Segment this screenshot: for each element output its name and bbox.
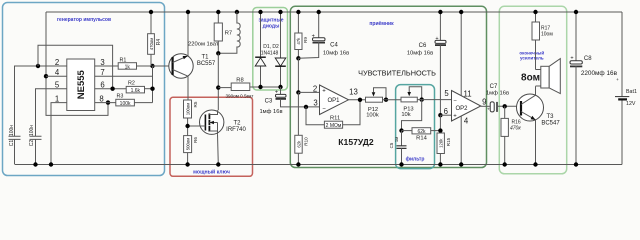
- svg-text:C4: C4: [330, 43, 338, 49]
- svg-text:R16: R16: [512, 119, 521, 125]
- wire pin6: [440, 114, 451, 116]
- svg-text:R4: R4: [156, 39, 162, 46]
- wire R8 to diodes: [250, 86, 281, 88]
- inductor coil L: [218, 10, 240, 54]
- svg-text:+: +: [322, 88, 326, 94]
- capacitor C6 10мф 16в: [407, 10, 446, 115]
- node output/feedback: [358, 98, 362, 102]
- wire pin1 to ground: [51, 103, 67, 165]
- svg-text:R6: R6: [193, 137, 198, 143]
- svg-text:−: −: [453, 98, 457, 104]
- svg-text:10мф 16в: 10мф 16в: [407, 51, 433, 57]
- svg-text:6: 6: [444, 107, 448, 116]
- wire pin4: [46, 75, 67, 77]
- svg-text:R5: R5: [193, 101, 198, 107]
- power switch box (мощный ключ): [170, 97, 253, 176]
- svg-text:2: 2: [313, 85, 317, 94]
- capacitor C3 1мф 16в: [259, 87, 319, 115]
- svg-text:R11: R11: [330, 116, 340, 122]
- node base column top: [150, 64, 154, 68]
- wire OP1 output: [349, 99, 366, 101]
- svg-text:1N4148: 1N4148: [261, 51, 279, 57]
- node pin2 tie: [36, 64, 40, 68]
- wire R3 to node: [134, 102, 152, 104]
- node drain top: [216, 51, 220, 55]
- capacitor C5: [389, 131, 406, 167]
- node R14 right: [438, 128, 442, 132]
- wire pin2 to C1: [15, 66, 67, 136]
- svg-text:−: −: [322, 106, 326, 112]
- wire R2 to node: [145, 88, 153, 90]
- generator box (генератор импульсов): [3, 3, 165, 176]
- wire pin8 to R3: [95, 102, 116, 104]
- svg-text:10k: 10k: [401, 112, 410, 118]
- svg-text:защитные: защитные: [258, 18, 283, 24]
- wire +12V top rail: [46, 11, 622, 13]
- svg-text:8ом: 8ом: [521, 73, 540, 84]
- diode D2: [275, 10, 286, 89]
- svg-text:11: 11: [463, 89, 471, 98]
- wire base node column: [152, 66, 154, 103]
- svg-text:3: 3: [313, 98, 317, 107]
- node R2 right: [150, 87, 154, 91]
- potentiometer P13 10k: [401, 87, 452, 118]
- svg-text:усилитель: усилитель: [520, 56, 544, 61]
- wire pin2 OP1: [298, 91, 319, 93]
- wire pin11 supply: [460, 12, 462, 96]
- svg-text:390ом 0.5ват: 390ом 0.5ват: [226, 94, 255, 99]
- svg-text:1мф 16в: 1мф 16в: [259, 109, 282, 115]
- potentiometer P12 100k: [366, 88, 402, 119]
- svg-text:+: +: [487, 106, 490, 111]
- svg-text:D1, D2: D1, D2: [263, 44, 279, 50]
- wire pin6 to R2: [95, 88, 127, 90]
- op-amp OP2: [444, 89, 487, 125]
- svg-text:фильтр: фильтр: [406, 156, 425, 163]
- resistor R17 10ом: [532, 10, 553, 70]
- transistor T1 BC557: [169, 10, 216, 100]
- svg-text:62k: 62k: [296, 140, 301, 148]
- svg-text:R2: R2: [128, 81, 135, 87]
- svg-text:BC557: BC557: [197, 61, 216, 67]
- svg-text:C1: C1: [9, 140, 15, 147]
- resistor R8 390ом 0.5ват: [226, 77, 255, 98]
- node pin8: [106, 100, 110, 104]
- receiver box (приёмник): [290, 6, 486, 167]
- svg-text:10мф 16в: 10мф 16в: [323, 51, 349, 57]
- svg-text:R9: R9: [303, 37, 308, 43]
- svg-text:100k: 100k: [120, 101, 131, 107]
- op-amp OP1: [313, 85, 358, 115]
- svg-text:R1: R1: [120, 58, 127, 64]
- svg-text:12V: 12V: [626, 101, 636, 107]
- resistor R14 62k: [402, 128, 441, 142]
- svg-text:62k: 62k: [417, 129, 426, 135]
- svg-text:генератор импульсов: генератор импульсов: [57, 17, 111, 23]
- resistor R5: [184, 100, 198, 136]
- svg-text:100н: 100н: [29, 125, 35, 136]
- resistor R2 1.6k: [126, 81, 144, 94]
- svg-text:NE555: NE555: [76, 69, 87, 99]
- node gate: [185, 124, 189, 128]
- wire OP2 output: [481, 105, 490, 107]
- node pin2 OP1: [296, 90, 300, 94]
- capacitor C2 100н: [29, 125, 42, 167]
- svg-text:R3: R3: [117, 94, 124, 100]
- svg-text:500ом: 500ом: [185, 138, 190, 151]
- svg-text:13: 13: [349, 87, 358, 96]
- svg-text:10ом: 10ом: [541, 32, 553, 38]
- svg-text:OP1: OP1: [327, 98, 340, 104]
- resistor R4 470ом: [148, 10, 162, 66]
- svg-text:приёмник: приёмник: [369, 21, 394, 27]
- svg-text:R8: R8: [236, 77, 243, 83]
- IC NE555 U1: [67, 59, 95, 111]
- svg-text:C3: C3: [265, 98, 273, 104]
- resistor R1 1k: [118, 58, 136, 71]
- svg-text:мощный ключ: мощный ключ: [193, 169, 230, 176]
- node pin1 gnd: [49, 162, 53, 166]
- svg-text:диоды: диоды: [263, 24, 280, 30]
- svg-text:+: +: [453, 113, 457, 119]
- svg-text:ЧУВСТВИТЕЛЬНОСТЬ: ЧУВСТВИТЕЛЬНОСТЬ: [358, 68, 436, 77]
- wire R10 column: [297, 92, 299, 164]
- svg-text:120k: 120k: [439, 138, 444, 148]
- wire R11 feedback loop: [306, 100, 360, 125]
- node R9/C4: [296, 56, 300, 60]
- wire base node to T1 base: [153, 65, 173, 67]
- svg-text:T1: T1: [201, 54, 209, 60]
- svg-text:R14: R14: [416, 136, 427, 142]
- node C7/R16/base: [503, 104, 507, 108]
- resistor R10 62k: [295, 135, 309, 166]
- transistor T2 IRF740 mosfet: [188, 110, 247, 167]
- wire +V left drop to pin4 and under-chip link to pin8: [46, 12, 108, 115]
- svg-text:R15: R15: [446, 137, 451, 146]
- output amplifier box (оконечный усилитель): [499, 6, 566, 174]
- wire pin2-pin6 over-the-top tie: [38, 45, 113, 88]
- svg-text:1мф 16в: 1мф 16в: [486, 90, 509, 96]
- wire drain column: [217, 53, 219, 110]
- node C5/R14 left: [399, 128, 403, 132]
- node drain/R8: [216, 85, 220, 89]
- svg-text:47k: 47k: [296, 37, 301, 45]
- wire pin3 to R1: [95, 65, 119, 67]
- node R2 left: [110, 87, 114, 91]
- svg-text:Bat1: Bat1: [626, 89, 637, 95]
- battery Bat1 12V: [615, 12, 637, 165]
- svg-text:C2: C2: [29, 140, 35, 147]
- svg-text:100k: 100k: [366, 112, 379, 118]
- svg-text:C6: C6: [419, 43, 427, 49]
- resistor R7: [214, 10, 232, 54]
- svg-text:470ом: 470ом: [149, 38, 154, 51]
- svg-text:2200мф 16в: 2200мф 16в: [581, 70, 618, 77]
- resistor R16 470к: [501, 106, 521, 166]
- wire ground bottom rail: [15, 164, 622, 166]
- capacitor C7 1мф 16в: [486, 84, 521, 112]
- svg-text:T2: T2: [233, 120, 241, 126]
- svg-text:220ом 1ват: 220ом 1ват: [188, 42, 219, 48]
- resistor R11 2 МОм: [324, 116, 342, 129]
- svg-text:IRF740: IRF740: [226, 127, 246, 133]
- resistor R9: [295, 10, 308, 59]
- capacitor C4 10мф 16в: [298, 10, 349, 59]
- svg-text:100ом: 100ом: [185, 103, 190, 116]
- wire R9 node to pin2 node: [297, 58, 299, 92]
- svg-text:C7: C7: [490, 84, 498, 90]
- wire pin7 to node: [95, 75, 153, 77]
- svg-text:9: 9: [482, 98, 486, 107]
- resistor R6: [184, 136, 198, 167]
- resistor R3 100k: [116, 94, 135, 107]
- protective diodes box (защитные диоды): [253, 8, 288, 91]
- svg-text:BC547: BC547: [541, 121, 560, 127]
- speaker 8ом: [521, 59, 560, 94]
- filter box (фильтр): [396, 85, 435, 169]
- resistor R15 120k: [437, 133, 451, 167]
- node pin4: [44, 74, 48, 78]
- svg-text:T3: T3: [546, 114, 554, 120]
- svg-text:R10: R10: [303, 137, 308, 146]
- svg-text:1м: 1м: [394, 137, 399, 142]
- capacitor C1 100н: [9, 125, 21, 165]
- transistor T3 BC547: [517, 86, 561, 167]
- capacitor C8 2200мф 16в: [570, 10, 618, 167]
- node pin6 OP2: [438, 113, 442, 117]
- diode D1: [255, 10, 266, 89]
- svg-text:2 МОм: 2 МОм: [326, 123, 342, 129]
- svg-text:+: +: [616, 77, 619, 82]
- wire R1 to base node: [137, 65, 153, 67]
- svg-text:470к: 470к: [510, 126, 521, 132]
- wire pin4 to ground: [460, 116, 462, 164]
- node pin3 / R11 tap: [304, 105, 308, 109]
- svg-text:OP2: OP2: [455, 106, 468, 112]
- svg-text:100н: 100н: [9, 125, 15, 136]
- svg-text:1.6k: 1.6k: [131, 88, 141, 94]
- svg-text:C8: C8: [584, 56, 592, 62]
- wire pin5 to C2: [36, 89, 67, 136]
- svg-text:R7: R7: [225, 31, 232, 37]
- wire pin6 node to R14/R15 node: [439, 115, 441, 133]
- svg-text:К157УД2: К157УД2: [338, 137, 374, 147]
- svg-text:1k: 1k: [125, 64, 131, 70]
- wire filter L-path: [402, 100, 422, 131]
- svg-text:4: 4: [464, 116, 469, 125]
- wire drain node to R8: [218, 87, 231, 89]
- svg-text:5: 5: [444, 89, 449, 98]
